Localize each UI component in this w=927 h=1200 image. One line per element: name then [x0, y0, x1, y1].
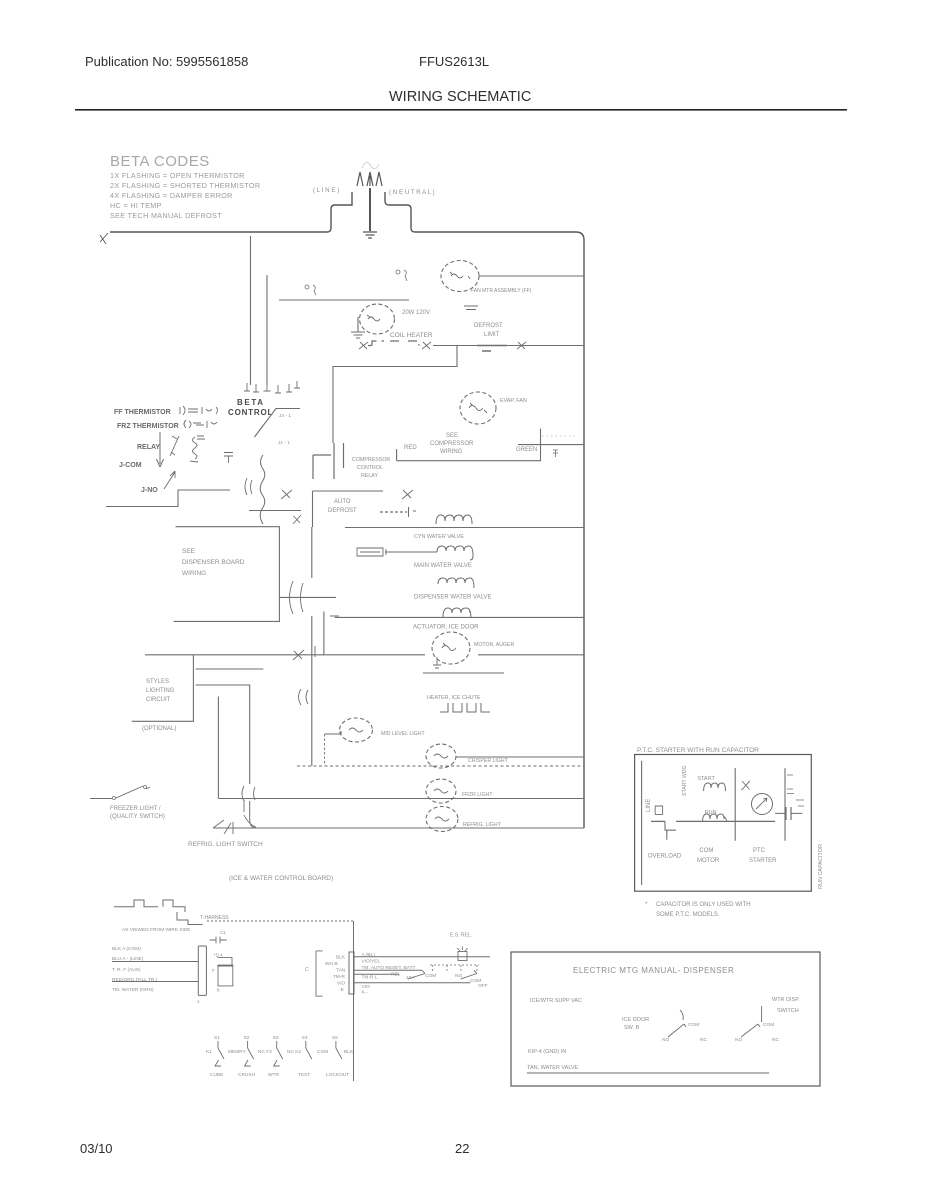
ice chute heater element	[440, 703, 490, 712]
svg-text:F: F	[212, 968, 215, 973]
refrig light circle	[426, 807, 458, 832]
svg-text:WH B: WH B	[325, 961, 338, 967]
run winding coil	[703, 814, 727, 821]
defrost heater dashed element	[368, 341, 419, 346]
svg-text:TEST: TEST	[298, 1072, 310, 1078]
svg-text:b: b	[217, 988, 220, 993]
svg-text:CYN WATER VALVE: CYN WATER VALVE	[414, 534, 464, 540]
svg-text:(OPTIONAL): (OPTIONAL)	[142, 726, 176, 732]
compressor circle	[460, 392, 496, 424]
defrost limit switch contact	[477, 346, 507, 352]
wire: dotted top line	[207, 920, 353, 922]
freezer light circle	[426, 779, 456, 803]
svg-text:03/10: 03/10	[80, 1141, 113, 1156]
bottom switch row	[206, 1035, 354, 1078]
wire: row line 4	[112, 981, 198, 983]
svg-text:TM-R: TM-R	[333, 974, 346, 980]
wire: crisper dashed row	[297, 765, 584, 767]
freezer light switch pictogram	[90, 786, 150, 799]
svg-text:AUTO: AUTO	[334, 499, 351, 505]
wire: top border left segment with plug plateau	[110, 192, 352, 232]
svg-text:2X FLASHING = SHORTED THER: 2X FLASHING = SHORTED THERMISTOR	[110, 181, 260, 190]
svg-text:MOTOR, AUGER: MOTOR, AUGER	[474, 642, 515, 648]
wire: mid light stub	[325, 731, 342, 734]
svg-text:ICE DOOR: ICE DOOR	[622, 1017, 649, 1023]
wire: capacitor branch	[775, 812, 802, 814]
svg-text:A (BL): A (BL)	[362, 952, 376, 958]
svg-text:GREEN: GREEN	[516, 447, 537, 453]
C bracket	[316, 951, 323, 996]
harness connector arcs	[245, 478, 252, 495]
svg-text:ELECTRIC MTG MANUAL- DISPEN: ELECTRIC MTG MANUAL- DISPENSER	[573, 966, 734, 975]
ice water valve coil	[436, 515, 472, 524]
long vertical bus bottom-left	[353, 921, 355, 1081]
svg-text:ACTUATOR, ICE DOOR: ACTUATOR, ICE DOOR	[413, 625, 479, 631]
svg-text:BETA CODES: BETA CODES	[110, 153, 210, 170]
wire: dispenser board to bus	[279, 596, 336, 598]
svg-text:SOME P.T.C. MODELS.: SOME P.T.C. MODELS.	[656, 912, 720, 918]
svg-text:20W 120V: 20W 120V	[402, 310, 430, 316]
wire: drop from heater row	[333, 346, 457, 443]
svg-text:T-HARNESS: T-HARNESS	[200, 915, 229, 921]
connector bar mid	[349, 952, 354, 994]
svg-text:S3: S3	[273, 1035, 279, 1041]
fan speed ticks	[430, 965, 479, 973]
svg-text:COMPRESSOR: COMPRESSOR	[352, 457, 390, 463]
svg-text:CONTROL: CONTROL	[228, 408, 273, 417]
svg-text:S2: S2	[244, 1035, 250, 1041]
svg-text:CONTROL: CONTROL	[357, 465, 383, 471]
svg-text:START WDG: START WDG	[682, 765, 688, 796]
wire break arrow at left end of border	[100, 233, 108, 244]
svg-text:CRUSH: CRUSH	[238, 1072, 256, 1078]
svg-text:START: START	[697, 776, 715, 782]
svg-text:RED: RED	[404, 445, 417, 451]
small connector marks	[305, 285, 309, 289]
wire: ice chute heater row	[423, 672, 504, 674]
relay lever symbol	[170, 436, 179, 456]
wire: step from board edge to control	[106, 490, 230, 507]
mid level light drop dashed	[324, 734, 326, 766]
arrow left of heater	[359, 342, 368, 349]
FF thermistor symbol	[180, 406, 218, 415]
svg-text:RELAY: RELAY	[361, 473, 378, 479]
ground tick below green wire	[553, 450, 558, 457]
svg-text:FF THERMISTOR: FF THERMISTOR	[114, 409, 171, 416]
svg-text:K1: K1	[206, 1049, 212, 1055]
wire: row A to lamp	[354, 956, 490, 958]
wire: heater row to bus	[433, 345, 584, 347]
svg-text:S5: S5	[332, 1035, 338, 1041]
right main bus	[583, 240, 585, 828]
wire: to main water valve coil	[385, 551, 437, 553]
svg-text:WIRING: WIRING	[440, 449, 463, 455]
relay coil symbol	[190, 436, 205, 462]
svg-text:NC: NC	[700, 1037, 707, 1043]
svg-text:CIRCUIT: CIRCUIT	[146, 697, 171, 703]
svg-text:COM: COM	[763, 1022, 774, 1028]
svg-text:LIMIT: LIMIT	[484, 332, 500, 338]
switch 1 lever	[668, 1010, 686, 1037]
svg-text:DEFROST: DEFROST	[328, 508, 357, 514]
svg-text:HEATER, ICE CHUTE: HEATER, ICE CHUTE	[427, 695, 481, 701]
see dispenser board box	[174, 527, 280, 622]
svg-text:COM: COM	[317, 1049, 328, 1055]
svg-text:DISPENSER WATER VALVE: DISPENSER WATER VALVE	[414, 595, 491, 601]
svg-text:TM-R L: TM-R L	[362, 975, 378, 981]
svg-text:MID LEVEL LIGHT: MID LEVEL LIGHT	[381, 731, 425, 737]
svg-text:BLK: BLK	[344, 1049, 354, 1055]
switch S5	[336, 1041, 342, 1059]
svg-text:STARTER: STARTER	[749, 858, 777, 864]
svg-text:REFRIG. LIGHT: REFRIG. LIGHT	[463, 822, 502, 828]
svg-text:FRZ THERMISTOR: FRZ THERMISTOR	[117, 423, 179, 430]
ground at coil heater	[351, 317, 365, 338]
svg-text:CRISPER LIGHT: CRISPER LIGHT	[468, 758, 509, 764]
wire: row C	[354, 973, 399, 975]
svg-text:CUBE: CUBE	[210, 1072, 223, 1078]
svg-text:Publication No: 5995561858: Publication No: 5995561858	[85, 54, 248, 69]
switch 2 vertical wire	[761, 1006, 763, 1022]
wire: freezer light row	[218, 798, 584, 800]
wire: row line 2	[112, 961, 198, 963]
svg-text:SEE: SEE	[446, 433, 458, 439]
switch S2	[245, 1041, 254, 1066]
svg-text:*: *	[645, 902, 648, 908]
coil heater circle	[360, 304, 395, 334]
svg-text:ICE/WTR SUPP VAC: ICE/WTR SUPP VAC	[530, 998, 582, 1004]
svg-text:BLK A (COM): BLK A (COM)	[112, 946, 141, 952]
actuator coil	[443, 608, 471, 617]
svg-text:TM: AUTO RESET, BATT: TM: AUTO RESET, BATT	[362, 965, 416, 971]
wire: actuator row	[335, 616, 584, 618]
svg-text:S4: S4	[302, 1035, 308, 1041]
svg-text:WIRING SCHEMATIC: WIRING SCHEMATIC	[389, 89, 531, 105]
valve coil boxes	[217, 957, 233, 986]
power plug prong 2	[367, 172, 373, 186]
mid level light circle	[340, 718, 373, 742]
svg-text:VIO: VIO	[362, 984, 371, 990]
capacitor tick near fan	[464, 306, 478, 310]
wire: ice water valve row	[345, 527, 584, 529]
svg-text:RUN CAPACITOR: RUN CAPACITOR	[818, 844, 824, 889]
svg-text:SEE TECH MANUAL DEFROST: SEE TECH MANUAL DEFROST	[110, 211, 222, 220]
inner left vertical	[641, 761, 643, 885]
dispenser water valve coil	[438, 578, 474, 588]
wire: main horizontal in PTC box	[651, 820, 775, 822]
FRZ thermistor symbol	[184, 420, 217, 428]
svg-text:HC = HI TEMP: HC = HI TEMP	[110, 201, 162, 210]
svg-text:NC K2: NC K2	[287, 1049, 301, 1055]
svg-text:OVERLOAD: OVERLOAD	[648, 854, 682, 860]
svg-text:COM: COM	[688, 1022, 699, 1028]
wire: lighting branch 1	[196, 668, 264, 670]
svg-text:NC: NC	[772, 1037, 779, 1043]
svg-text:COM: COM	[425, 973, 436, 979]
svg-text:T. R. F (AUX): T. R. F (AUX)	[112, 967, 141, 973]
wire: top border right segment	[385, 192, 584, 240]
svg-text:FRZR LIGHT: FRZR LIGHT	[462, 792, 493, 798]
svg-text:COIL HEATER: COIL HEATER	[390, 332, 433, 339]
arrow mid heater wire	[517, 342, 526, 349]
svg-text:TAN: TAN	[336, 967, 346, 973]
ground wire from plug	[369, 188, 371, 231]
svg-text:SWITCH: SWITCH	[777, 1008, 799, 1014]
connector arcs on dispenser wire	[290, 581, 304, 614]
vertical bus x312 lower segment	[311, 655, 313, 766]
svg-text:( L I N E ): ( L I N E )	[313, 187, 339, 194]
svg-text:LOCKOUT: LOCKOUT	[326, 1072, 349, 1078]
vertical bus left-mid	[311, 527, 313, 655]
svg-text:1X FLASHING = OPEN THERMIS: 1X FLASHING = OPEN THERMISTOR	[110, 171, 245, 180]
switch S4	[306, 1041, 312, 1059]
switch 2 lever	[741, 1024, 760, 1037]
svg-text:LIGHTING: LIGHTING	[146, 688, 175, 694]
svg-text:J-COM: J-COM	[119, 462, 142, 469]
svg-text:E.S. REL.: E.S. REL.	[450, 933, 472, 939]
wire: vertical to refrig switch	[217, 697, 219, 799]
svg-text:MOTOR: MOTOR	[697, 858, 720, 864]
capacitor symbol right of relay	[224, 453, 233, 464]
svg-text:TAN, WATER VALVE: TAN, WATER VALVE	[527, 1065, 579, 1071]
wire: row D	[354, 982, 470, 984]
wire: lighting branch 2	[196, 685, 250, 784]
capacitor small symbol	[210, 937, 227, 944]
capacitor dashes	[796, 800, 804, 806]
faint dotted line above green wire	[542, 435, 575, 437]
fault code legend	[110, 153, 260, 220]
svg-text:FFUS2613L: FFUS2613L	[419, 54, 489, 69]
underline in dispenser box	[527, 1072, 769, 1074]
svg-text:AS VIEWED FROM WIRE SIDE: AS VIEWED FROM WIRE SIDE	[122, 927, 191, 933]
svg-text:TM. WATER (GRN): TM. WATER (GRN)	[112, 987, 154, 993]
svg-text:VIO/YEL: VIO/YEL	[362, 959, 381, 965]
connector arc on left bus	[299, 689, 309, 705]
svg-text:J4 - 1: J4 - 1	[279, 413, 291, 419]
svg-text:PTC: PTC	[753, 848, 766, 854]
svg-text:WTR DISP.: WTR DISP.	[772, 997, 800, 1003]
svg-text:RELAY: RELAY	[137, 444, 160, 451]
svg-text:BLK: BLK	[336, 954, 346, 960]
svg-text:K--: K--	[362, 990, 369, 996]
svg-text:STYLES: STYLES	[146, 679, 169, 685]
auger motor circle	[432, 632, 470, 664]
small connector marks near fan	[396, 270, 400, 274]
control connector pins	[244, 381, 300, 393]
pin ticks right of divider	[787, 775, 794, 793]
svg-text:WTR: WTR	[268, 1072, 279, 1078]
svg-text:MEMRY: MEMRY	[228, 1049, 247, 1055]
wire: vertical from border to control connector	[250, 236, 252, 385]
svg-text:SW. B: SW. B	[624, 1025, 640, 1031]
svg-text:OFF: OFF	[478, 983, 488, 989]
svg-text:+D 4: +D 4	[213, 953, 223, 958]
svg-text:COMPRESSOR: COMPRESSOR	[430, 441, 474, 447]
svg-text:REFRIG. LIGHT SWITCH: REFRIG. LIGHT SWITCH	[188, 841, 263, 848]
fan motor FF circle	[441, 261, 479, 292]
start contact marks	[742, 781, 751, 790]
connector bar	[198, 946, 206, 995]
middle divider vertical	[734, 768, 736, 841]
main water valve coil	[437, 546, 473, 560]
wire: row B	[354, 969, 422, 971]
svg-text:S1: S1	[214, 1035, 220, 1041]
svg-text:(ICE & WATER CONTROL BOARD): (ICE & WATER CONTROL BOARD)	[229, 875, 333, 882]
svg-text:MAIN WATER VALVE: MAIN WATER VALVE	[414, 563, 472, 569]
arrow below control	[293, 515, 301, 524]
wire: green ground wire to bus	[518, 444, 584, 446]
junction tick	[314, 646, 316, 657]
crisper light circle	[426, 744, 456, 768]
svg-text:DISPENSER BOARD: DISPENSER BOARD	[182, 559, 245, 566]
svg-text:COM: COM	[699, 848, 713, 854]
relay pointer arrow	[157, 432, 164, 467]
arrows on auto defrost wire	[281, 490, 413, 499]
svg-text:4X FLASHING = DAMPER ERROR: 4X FLASHING = DAMPER ERROR	[110, 191, 233, 200]
ground symbol	[363, 232, 377, 238]
PTC box border	[635, 755, 812, 892]
overload step	[665, 821, 676, 839]
wire: horizontal at control bottom	[249, 510, 301, 512]
defrost timer rect symbol	[357, 548, 386, 556]
power plug prong 3	[376, 172, 382, 186]
right lever	[461, 970, 477, 979]
harness wavy vertical	[260, 455, 265, 524]
wire: auto defrost corner	[313, 491, 384, 527]
svg-text:VIO: VIO	[337, 980, 346, 986]
svg-text:J1 - 1: J1 - 1	[278, 440, 290, 446]
svg-text:P.T.C. STARTER WITH RUN CA: P.T.C. STARTER WITH RUN CAPACITOR	[637, 747, 759, 754]
styles lighting box	[132, 655, 194, 721]
svg-text:C1: C1	[220, 930, 226, 935]
svg-text:10A: 10A	[406, 975, 415, 981]
switch lever mid	[408, 970, 425, 979]
plug cord scribble	[362, 162, 379, 168]
switch S3	[274, 1041, 283, 1066]
svg-text:EVAP. FAN: EVAP. FAN	[500, 398, 527, 404]
start winding coil	[704, 783, 726, 791]
wire: diagonal to J4	[255, 409, 301, 438]
arrow right of heater	[422, 342, 431, 349]
svg-text:CAPACITOR IS ONLY USED WIT: CAPACITOR IS ONLY USED WITH	[656, 902, 751, 908]
wire: fan to bus	[479, 275, 584, 277]
svg-text:J-NO: J-NO	[141, 487, 158, 494]
motor protector circle	[752, 794, 773, 815]
break arrow on auger row	[293, 650, 304, 660]
svg-text:NO: NO	[455, 973, 462, 979]
svg-text:SEE: SEE	[182, 548, 196, 555]
defrost thermostat contact	[380, 511, 407, 513]
svg-text:RED/ORG (FILL TR.): RED/ORG (FILL TR.)	[112, 977, 158, 983]
right divider vertical	[784, 768, 786, 841]
svg-text:NO: NO	[662, 1037, 669, 1043]
svg-text:FAN MTR ASSEMBLY (FF): FAN MTR ASSEMBLY (FF)	[471, 288, 532, 294]
wire: second vertical to control connector	[266, 275, 268, 385]
compressor control relay contact	[313, 443, 344, 479]
svg-text:(QUALITY SWITCH): (QUALITY SWITCH)	[110, 814, 165, 820]
svg-text:KIP-4 (GND) IN: KIP-4 (GND) IN	[528, 1049, 566, 1055]
J-NO pointer arrow	[164, 471, 175, 489]
connector arc on x250	[242, 786, 255, 801]
refrig light switch lever	[244, 800, 256, 827]
wire: auger motor row	[145, 654, 584, 656]
wire: step to thermal fuse	[177, 912, 203, 925]
power plug prong 1	[357, 172, 363, 186]
svg-text:REL: REL	[391, 972, 401, 978]
svg-text:-E: -E	[339, 987, 344, 993]
svg-text:DEFROST: DEFROST	[474, 323, 503, 329]
wire: horizontal feed to coil heater	[279, 299, 409, 301]
wire: refrig light row	[213, 827, 584, 829]
svg-text:( N E U T R A L ): ( N E U T R A L )	[389, 189, 435, 196]
svg-text:22: 22	[455, 1141, 469, 1156]
svg-text:LINE: LINE	[646, 799, 652, 812]
vertical bus x324	[324, 612, 339, 656]
svg-text:BETA: BETA	[237, 398, 265, 407]
run capacitor plates	[786, 807, 791, 820]
wire: x250 to light row	[250, 801, 257, 828]
arrow at refrig row end	[213, 820, 233, 834]
svg-text:1: 1	[197, 999, 200, 1004]
dispenser module box	[511, 952, 820, 1086]
compressor box	[397, 429, 541, 461]
svg-text:FREEZER LIGHT /: FREEZER LIGHT /	[110, 806, 161, 812]
line plug connector	[655, 806, 662, 814]
svg-text:C: C	[305, 967, 309, 973]
harness pulse waveform	[114, 900, 185, 912]
ground at auger motor	[433, 657, 441, 668]
header rule	[75, 109, 847, 111]
svg-text:NO: NO	[735, 1037, 742, 1043]
svg-text:WIRING: WIRING	[182, 570, 206, 577]
wire: crisper to bus	[456, 756, 584, 758]
svg-text:NC F2: NC F2	[258, 1049, 272, 1055]
lamp E.S. REL	[458, 952, 467, 961]
switch S1	[215, 1041, 224, 1066]
